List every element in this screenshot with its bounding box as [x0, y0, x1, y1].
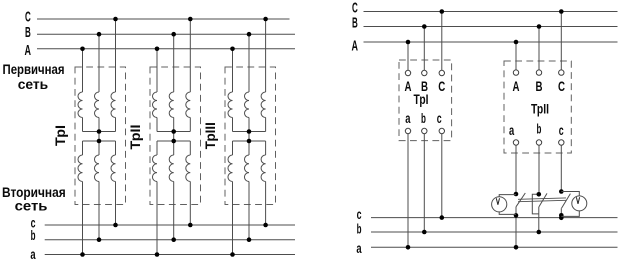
transformer TrII (left figure) dashed enclosure: [150, 67, 201, 205]
junction pole3 on bus c: [559, 216, 564, 221]
winding TrIII secondary c-phase: [261, 155, 266, 182]
transformer TrI (right figure) dashed enclosure: [399, 60, 452, 141]
wire B to TrI terminal B: [423, 27, 425, 71]
junction TrIII-b: [247, 237, 252, 242]
wire TrI secondary b to bus b: [98, 182, 100, 240]
junction TrI-C: [113, 17, 118, 22]
wire C to TrII terminal C: [560, 12, 562, 70]
junction TrI secondary star: [97, 139, 102, 144]
junction TrI-b: [97, 237, 102, 242]
svg-text:сеть: сеть: [18, 76, 49, 92]
node C (primary phase C bus, left figure): [37, 18, 290, 20]
junction pole3 bottom: [559, 213, 564, 218]
wire TrI terminal a to bus a: [407, 134, 409, 248]
svg-text:B: B: [25, 24, 31, 41]
switch Q (3-pole knife switch): [516, 193, 570, 247]
switch pole 3 blade: [562, 194, 571, 209]
winding TrI primary c-phase: [111, 92, 116, 118]
junction TrI-C (right): [440, 9, 445, 14]
wire V1 top to pole1 top: [499, 195, 516, 197]
junction TrII-C: [188, 17, 193, 22]
winding TrIII primary a-phase: [228, 92, 233, 118]
wire TrI secondary a to bus a: [82, 182, 84, 255]
pin B of TrII: [536, 70, 541, 75]
wire TrII terminal c to switch pole 3: [560, 145, 562, 191]
svg-text:C: C: [25, 9, 31, 26]
wire TrII secondary a to bus a: [156, 182, 158, 255]
switch pole 2 blade stub: [538, 207, 540, 214]
switch pole 2 jumper (bypass of middle pole): [532, 194, 539, 214]
wire TrI phase A drop: [82, 49, 84, 92]
wire C to TrI terminal C: [441, 12, 443, 71]
svg-text:В: В: [536, 78, 543, 94]
junction TrII-A (right): [514, 40, 519, 45]
wire B to TrII terminal B: [538, 27, 540, 70]
node b (secondary phase b bus, left figure): [45, 239, 295, 241]
junction TrII-A: [155, 47, 160, 52]
wire TrII terminal b to switch pole 2: [538, 145, 540, 194]
wire TrI secondary c to bus c: [115, 182, 117, 226]
winding TrIII secondary b-phase: [244, 155, 249, 182]
svg-text:Первичная: Первичная: [3, 61, 65, 77]
junction TrI primary star: [97, 129, 102, 134]
node A (primary phase A bus, right figure): [364, 41, 618, 43]
wire TrI terminal c to bus c: [441, 134, 443, 218]
wire TrIII secondary a to bus a: [232, 182, 234, 255]
winding TrI primary b-phase: [95, 92, 100, 118]
svg-text:A: A: [25, 42, 32, 59]
junction TrIII-c: [263, 223, 268, 228]
wire TrI phase C drop: [115, 19, 117, 92]
junction pole2 top: [537, 192, 542, 197]
junction TrI-b (right): [422, 230, 427, 235]
winding TrI secondary a-phase: [78, 155, 83, 182]
wire V2 top to pole3 top: [561, 192, 579, 196]
voltmeter V1 body: [492, 197, 507, 212]
svg-text:а: а: [405, 111, 411, 126]
junction pole1 bottom: [514, 213, 519, 218]
junction TrI-A (right): [406, 40, 411, 45]
wire TrII terminal a to switch pole 1: [515, 145, 517, 194]
winding TrIII primary b-phase: [245, 92, 250, 118]
svg-text:В: В: [421, 78, 428, 94]
switch pole 1 bottom stub: [515, 207, 517, 216]
wire TrII primary star bus: [157, 131, 190, 133]
junction TrI-c (right): [440, 215, 445, 220]
svg-text:A: A: [352, 37, 359, 54]
wire V2 bottom to pole3 bottom: [561, 211, 579, 217]
svg-text:b: b: [31, 228, 36, 243]
node a (secondary phase a bus, left figure): [45, 254, 295, 256]
wire TrI terminal b to bus b: [423, 134, 425, 232]
pin b of TrII: [536, 140, 541, 145]
transformer TrIII (left figure) dashed enclosure: [225, 67, 276, 205]
junction TrIII-C: [263, 17, 268, 22]
junction pole1 on bus a: [514, 245, 519, 250]
junction TrI-a: [80, 252, 85, 257]
wire TrII primary coil bottoms to star bus: [156, 118, 158, 132]
svg-text:b: b: [357, 222, 362, 237]
winding TrI secondary c-phase: [111, 155, 116, 182]
junction TrII secondary star: [171, 139, 176, 144]
wire TrI primary star bus: [83, 131, 116, 133]
svg-text:сеть: сеть: [15, 197, 48, 213]
wire TrIII secondary b to bus b: [248, 182, 250, 240]
winding TrII secondary c-phase: [186, 155, 191, 182]
junction TrI-a (right): [406, 245, 411, 250]
switch pole 2 blade: [539, 193, 547, 207]
transformer TrI (left figure) dashed enclosure: [75, 67, 126, 205]
junction TrII-C (right): [559, 9, 564, 14]
wire TrI secondary star bus: [83, 140, 116, 142]
svg-text:B: B: [352, 14, 358, 31]
voltmeter V1: [492, 195, 516, 215]
wire TrIII primary star bus: [233, 131, 266, 133]
svg-text:ТрII: ТрII: [127, 125, 143, 150]
switch linkage bar (upper): [518, 198, 566, 199]
junction TrIII-B: [247, 32, 252, 37]
junction TrI-B (right): [422, 24, 427, 29]
junction TrII primary star: [171, 129, 176, 134]
svg-text:ТрI: ТрI: [52, 125, 68, 146]
wire TrIII secondary c to bus c: [265, 182, 267, 226]
node C (primary phase C bus, right figure): [364, 11, 618, 13]
switch pole 3 bottom stub: [560, 208, 562, 217]
node B (primary phase B bus, left figure): [37, 33, 295, 35]
winding TrI secondary b-phase: [94, 155, 99, 182]
svg-text:b: b: [537, 122, 542, 137]
wire TrII secondary c to bus c: [189, 182, 191, 226]
pin a of TrI: [405, 128, 410, 133]
wire TrII phase A drop: [156, 49, 158, 92]
svg-text:с: с: [437, 111, 442, 126]
pin c of TrII: [559, 140, 564, 145]
wire TrIII secondary drops to coils: [232, 141, 234, 155]
pin A of TrI: [405, 70, 410, 75]
junction TrII-B: [171, 32, 176, 37]
junction TrI-c: [113, 223, 118, 228]
winding TrII primary c-phase: [186, 92, 191, 118]
wire pole2 bottom to bus b: [538, 214, 540, 232]
wire TrI secondary drops to coils: [82, 141, 84, 155]
winding TrII secondary a-phase: [152, 155, 157, 182]
junction pole2 on bus b: [537, 230, 542, 235]
winding TrII primary a-phase: [153, 92, 158, 118]
svg-text:a: a: [30, 247, 36, 262]
svg-text:А: А: [513, 78, 520, 94]
node A (primary phase A bus, left figure): [37, 48, 295, 50]
winding TrII secondary b-phase: [169, 155, 174, 182]
svg-text:а: а: [509, 123, 515, 138]
wire TrII secondary star bus: [157, 140, 190, 142]
voltmeter V2: [561, 192, 587, 217]
wire TrII secondary drops to coils: [156, 141, 158, 155]
junction pole1 top: [514, 192, 519, 197]
wire TrIII phase C drop: [265, 19, 267, 92]
junction TrII-B (right): [537, 24, 542, 29]
junction TrII-b: [171, 237, 176, 242]
wire TrII secondary b to bus b: [173, 182, 175, 240]
wire V1 bottom to pole1 bottom: [499, 212, 516, 215]
wire TrI primary coil bottoms to star bus: [82, 118, 84, 132]
junction TrI-B: [97, 32, 102, 37]
svg-text:С: С: [558, 78, 565, 94]
winding TrI primary a-phase: [78, 92, 83, 118]
voltmeter V2 body: [572, 196, 587, 211]
pin a of TrII: [513, 140, 518, 145]
svg-text:А: А: [405, 78, 412, 94]
junction TrI-A: [80, 47, 85, 52]
pin B of TrI: [422, 70, 427, 75]
winding TrIII secondary a-phase: [228, 155, 233, 182]
wire pole1 bottom to bus a: [515, 215, 517, 247]
junction TrII-a: [155, 252, 160, 257]
node B (primary phase B bus, right figure): [364, 26, 618, 28]
pin A of TrII: [513, 70, 518, 75]
node b (secondary phase b bus, right figure): [371, 231, 618, 233]
svg-text:a: a: [356, 241, 362, 256]
wire TrII phase C drop: [189, 19, 191, 92]
junction TrIII secondary star: [247, 139, 252, 144]
node a (secondary phase a bus, right figure): [371, 246, 618, 248]
wire TrIII primary coil bottoms to star bus: [232, 118, 234, 132]
junction pole3 top: [559, 189, 564, 194]
pin C of TrII: [559, 70, 564, 75]
wire A to TrII terminal A: [515, 42, 517, 70]
winding TrII primary b-phase: [169, 92, 174, 118]
voltmeter V2 V-mark: [576, 197, 579, 204]
pin b of TrI: [422, 128, 427, 133]
junction TrII-c: [188, 223, 193, 228]
wire TrIII phase B drop: [248, 34, 250, 92]
junction TrIII primary star: [247, 129, 252, 134]
svg-text:c: c: [357, 207, 362, 222]
wire TrIII phase A drop: [232, 49, 234, 92]
svg-text:с: с: [559, 123, 564, 138]
svg-text:С: С: [438, 78, 445, 94]
svg-text:ТрII: ТрII: [531, 101, 549, 117]
junction TrIII-a: [230, 252, 235, 257]
node c (secondary phase c bus, right figure): [371, 217, 618, 219]
svg-text:ТрIII: ТрIII: [202, 122, 218, 149]
switch pole 1 blade: [516, 193, 525, 207]
voltmeter V1 V-mark: [496, 198, 499, 205]
winding TrIII primary c-phase: [261, 92, 266, 118]
wire TrII phase B drop: [173, 34, 175, 92]
pin c of TrI: [439, 128, 444, 133]
wire TrIII secondary star bus: [233, 140, 266, 142]
wire TrI phase B drop: [98, 34, 100, 92]
wire A to TrI terminal A: [407, 42, 409, 70]
pin C of TrI: [439, 70, 444, 75]
switch linkage bar (lower): [518, 200, 566, 201]
svg-text:b: b: [421, 111, 426, 126]
transformer TrII (right figure) dashed enclosure: [504, 61, 571, 153]
node c (secondary phase c bus, left figure): [45, 224, 295, 226]
junction TrIII-A: [230, 47, 235, 52]
